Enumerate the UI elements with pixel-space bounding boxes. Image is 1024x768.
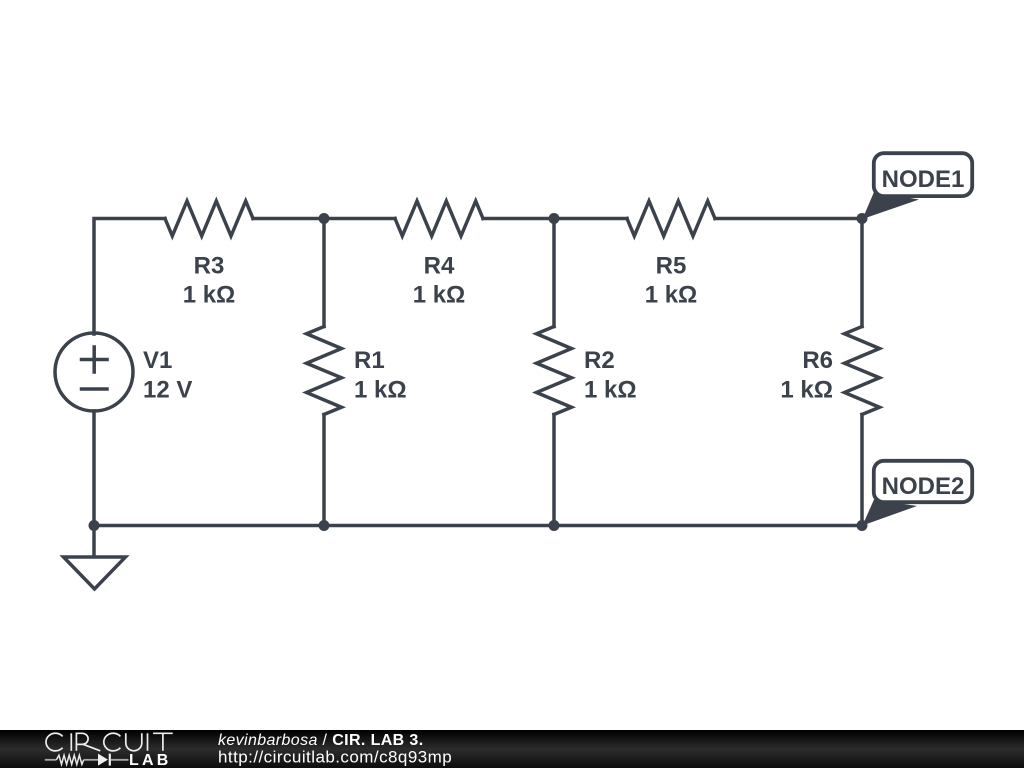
flag NODE1 wedge: [863, 192, 920, 219]
V1 minus sign: [82, 387, 108, 391]
resistor R2 upper stub: [552, 219, 556, 327]
svg-text:http://circuitlab.com/c8q93mp: http://circuitlab.com/c8q93mp: [218, 748, 452, 767]
V1 plus sign: [82, 347, 108, 372]
svg-text:R1: R1: [354, 347, 385, 374]
logo letter I: [70, 733, 72, 751]
node junction dot NODE2: [857, 520, 868, 531]
svg-text:12 V: 12 V: [143, 377, 192, 404]
logo letter U: [126, 733, 142, 750]
svg-text:1 kΩ: 1 kΩ: [780, 377, 833, 404]
resistor R2 lower stub: [552, 415, 556, 526]
node junction dot top at R1: [319, 213, 330, 224]
ground triangle: [64, 557, 126, 589]
flag NODE2 box: [874, 461, 972, 502]
logo letter C: [46, 733, 63, 751]
ground stem: [92, 526, 96, 558]
svg-text:R6: R6: [802, 347, 833, 374]
svg-text:R4: R4: [424, 253, 455, 280]
resistor R3: [165, 201, 253, 236]
CircuitLab logo resistor zigzag: [56, 755, 83, 764]
resistor R1 upper stub: [322, 219, 326, 327]
wire bottom: [94, 524, 862, 528]
flag NODE1 box: [874, 153, 972, 196]
CircuitLab logo diode triangle: [98, 754, 108, 766]
resistor R1 lower stub: [322, 415, 326, 526]
svg-text:kevinbarbosa / CIR. LAB 3.: kevinbarbosa / CIR. LAB 3.: [218, 732, 424, 749]
svg-text:1 kΩ: 1 kΩ: [584, 377, 637, 404]
svg-text:1 kΩ: 1 kΩ: [183, 282, 236, 309]
resistor R5: [627, 201, 715, 236]
wire top-left corner: [94, 219, 165, 335]
resistor R4: [395, 201, 483, 236]
node junction dot top at R2: [549, 213, 560, 224]
svg-text:NODE2: NODE2: [882, 473, 965, 500]
resistor R6 upper stub: [860, 219, 864, 327]
node junction dot NODE1: [857, 213, 868, 224]
flag NODE2 wedge: [863, 500, 918, 526]
CircuitLab logo CIRCUIT (hand-drawn thin letters): [46, 733, 173, 751]
resistor R6 lower stub: [860, 415, 864, 526]
svg-text:R5: R5: [656, 253, 687, 280]
svg-text:1 kΩ: 1 kΩ: [354, 377, 407, 404]
svg-text:LAB: LAB: [129, 752, 171, 768]
svg-text:NODE1: NODE1: [882, 166, 965, 193]
resistor R2: [537, 327, 572, 415]
CircuitLab logo wire left: [45, 759, 57, 761]
svg-text:1 kΩ: 1 kΩ: [645, 282, 698, 309]
node junction dot bottom left ground: [89, 520, 100, 531]
CircuitLab logo diode cathode bar: [109, 754, 111, 766]
CircuitLab logo wire right: [111, 759, 129, 761]
CircuitLab logo wire middle: [84, 759, 98, 761]
svg-text:V1: V1: [143, 347, 172, 374]
resistor R6: [845, 327, 880, 415]
logo letter R: [76, 733, 100, 751]
logo letter I: [147, 733, 149, 751]
node junction dot bottom at R2: [549, 520, 560, 531]
svg-text:R2: R2: [584, 347, 615, 374]
logo letter T: [153, 733, 173, 751]
wire top segment A: [253, 217, 395, 221]
resistor R1: [307, 327, 342, 415]
wire left lower: [92, 411, 96, 526]
logo letter C: [104, 733, 121, 751]
svg-text:R3: R3: [194, 253, 225, 280]
voltage source V1 circle: [55, 333, 133, 411]
node junction dot bottom at R1: [319, 520, 330, 531]
wire top segment B: [483, 217, 627, 221]
svg-text:1 kΩ: 1 kΩ: [413, 282, 466, 309]
wire top segment C: [715, 217, 862, 221]
